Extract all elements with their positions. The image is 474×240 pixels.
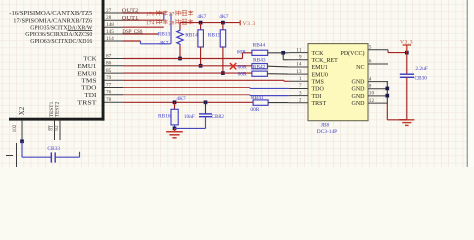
wire RB41 to pin 2 bbox=[268, 102, 289, 104]
junction GND pin 8 bbox=[385, 87, 389, 91]
GND bus vertical bbox=[386, 81, 388, 103]
power port V3.3 (rail) bar bbox=[239, 20, 241, 25]
junction on rail at RB15 bbox=[221, 21, 225, 25]
svg-text:RB13: RB13 bbox=[158, 32, 171, 38]
svg-text:10nF: 10nF bbox=[184, 114, 195, 120]
JB8 pin 10 stub bbox=[368, 95, 388, 97]
svg-text:PD(VCC): PD(VCC) bbox=[340, 50, 364, 57]
wire RB42 to pin 13 bbox=[267, 73, 288, 75]
JB8 pin 11 stub bbox=[289, 52, 308, 54]
svg-text:78: 78 bbox=[106, 97, 112, 103]
svg-text:3: 3 bbox=[299, 90, 302, 96]
svg-text:85: 85 bbox=[106, 68, 112, 74]
JB8 pin 12 stub bbox=[368, 102, 388, 104]
svg-text:CB82: CB82 bbox=[211, 114, 224, 120]
svg-text:4K7: 4K7 bbox=[197, 14, 207, 20]
svg-text:TDI: TDI bbox=[84, 93, 96, 99]
svg-text:V3.3: V3.3 bbox=[243, 21, 256, 27]
sheet border (right edge of schematic sheet) bbox=[468, 0, 474, 167]
svg-text:GPIO63/SCITXDC/XD16: GPIO63/SCITXDC/XD16 bbox=[30, 39, 92, 45]
svg-text:OUT2: OUT2 bbox=[122, 8, 139, 14]
svg-text:2.2uF: 2.2uF bbox=[415, 66, 427, 72]
svg-text:00R: 00R bbox=[238, 72, 247, 78]
svg-text:00R: 00R bbox=[237, 49, 246, 55]
stub tick bbox=[6, 155, 13, 157]
connector JB8 body bbox=[308, 44, 368, 121]
wire net TDO bbox=[123, 87, 250, 89]
pin 145 stub bbox=[105, 33, 124, 35]
junction RB13/TCK bbox=[178, 57, 182, 61]
svg-text:102: 102 bbox=[12, 124, 18, 132]
svg-text:12: 12 bbox=[369, 98, 375, 104]
wire jog at x=140.5 bbox=[140, 41, 142, 44]
svg-text:RB15: RB15 bbox=[208, 33, 221, 39]
svg-text:4K7: 4K7 bbox=[219, 14, 229, 20]
svg-text:4: 4 bbox=[369, 76, 372, 82]
wire net OUT1 (pin 28) bbox=[123, 19, 164, 21]
wire net TDI bbox=[123, 94, 250, 96]
wire net TCK bbox=[123, 58, 243, 60]
wire pin 148 bbox=[123, 26, 164, 28]
svg-text:13: 13 bbox=[296, 69, 302, 75]
svg-text:2: 2 bbox=[299, 97, 302, 103]
stub line (cut component) bbox=[16, 143, 18, 167]
svg-text:TCK: TCK bbox=[83, 57, 97, 63]
junction on rail at RB14 bbox=[199, 21, 203, 25]
capacitor CB30 2.2uF bbox=[406, 53, 408, 74]
junction RB15/EMU0 bbox=[221, 71, 225, 75]
svg-text:82: 82 bbox=[54, 125, 60, 131]
wire GND bus to ground bbox=[386, 103, 388, 120]
svg-text:GND: GND bbox=[352, 101, 366, 107]
svg-text:EMU1: EMU1 bbox=[312, 65, 328, 71]
power port V3.3 (right) bbox=[406, 45, 408, 52]
wire net TMS bbox=[123, 79, 284, 81]
wire net OUT2 (pin 27) bbox=[123, 12, 164, 14]
svg-text:77: 77 bbox=[106, 82, 112, 88]
svg-text:6: 6 bbox=[369, 59, 372, 65]
svg-text:RB42: RB42 bbox=[253, 65, 266, 71]
JB8 pin 7 stub bbox=[289, 87, 308, 89]
svg-text:EMU1: EMU1 bbox=[77, 64, 96, 70]
JB8 pin 2 stub bbox=[289, 102, 308, 104]
svg-text:TDI: TDI bbox=[312, 94, 322, 100]
resistor RB15 4K7 (box) bbox=[222, 23, 224, 30]
svg-text:114: 114 bbox=[106, 36, 114, 42]
resistor RB44 00R bbox=[252, 50, 268, 55]
wire pin 102 down bbox=[21, 141, 23, 157]
svg-text:TRST: TRST bbox=[312, 101, 327, 107]
pin 27 stub bbox=[105, 12, 124, 14]
svg-text:GND: GND bbox=[352, 87, 366, 93]
wire horizontal y=43.8 bbox=[141, 43, 172, 45]
wire net DSP_CS0 (pin 145) bbox=[123, 33, 158, 35]
svg-text:28: 28 bbox=[106, 15, 112, 21]
pin 87 stub bbox=[105, 58, 124, 60]
pin 114 stub bbox=[105, 40, 124, 42]
svg-text:EMU0: EMU0 bbox=[312, 72, 328, 78]
svg-text:00R: 00R bbox=[238, 65, 247, 71]
svg-text:4K7: 4K7 bbox=[176, 96, 186, 102]
svg-text:TRST: TRST bbox=[77, 101, 96, 107]
svg-text:14: 14 bbox=[296, 62, 302, 68]
svg-text:RB16: RB16 bbox=[158, 113, 171, 119]
JB8 pin 8 stub bbox=[368, 88, 388, 90]
junction V3.3/pin5 bbox=[405, 51, 409, 55]
svg-text:EMU0: EMU0 bbox=[77, 71, 96, 77]
svg-text:87: 87 bbox=[106, 53, 112, 59]
svg-text:TMS: TMS bbox=[312, 79, 324, 85]
wire net EMU0 bbox=[123, 72, 252, 74]
capacitor CB33 bbox=[22, 156, 51, 158]
svg-text:GPIO36/SCIRXDA/XZCS0: GPIO36/SCIRXDA/XZCS0 bbox=[25, 32, 92, 38]
svg-text:NC: NC bbox=[356, 65, 364, 71]
JB8 pin 5 stub bbox=[368, 49, 388, 51]
JB8 pin 13 stub bbox=[289, 73, 308, 75]
resistor RB42 00R bbox=[252, 71, 268, 76]
svg-text:TDO: TDO bbox=[312, 87, 325, 93]
svg-text:1: 1 bbox=[299, 76, 302, 82]
resistor RB41 00R bbox=[253, 100, 268, 105]
svg-text:145: 145 bbox=[106, 29, 114, 35]
svg-text:TMS: TMS bbox=[81, 79, 96, 85]
svg-text:76: 76 bbox=[106, 90, 112, 96]
svg-text:86: 86 bbox=[106, 61, 112, 67]
IC U-X2 bottom edge bbox=[9, 118, 105, 121]
resistor RB14 4K7 (box) bbox=[200, 23, 202, 30]
IC U-X2 right edge bbox=[102, 0, 105, 121]
svg-text:10: 10 bbox=[369, 91, 375, 97]
svg-text:9: 9 bbox=[299, 54, 302, 60]
resistor RB13 4K7 (zigzag) bbox=[179, 23, 181, 29]
wire CB82 to RB16 bottom bbox=[175, 127, 206, 129]
JB8 pin 3 stub bbox=[289, 95, 308, 97]
svg-text:RB14: RB14 bbox=[185, 33, 198, 39]
ground symbol (TRST RC) bbox=[174, 128, 176, 131]
pin 79 stub bbox=[105, 79, 124, 81]
pin 81 stub bbox=[54, 121, 56, 140]
svg-text:V3.3: V3.3 bbox=[400, 40, 413, 46]
svg-text:GND: GND bbox=[352, 94, 366, 100]
svg-text:176: 176 bbox=[146, 12, 155, 18]
pin 86 stub bbox=[105, 65, 124, 67]
pin 77 stub bbox=[105, 87, 124, 89]
svg-text:00R: 00R bbox=[250, 107, 259, 113]
svg-text:CB33: CB33 bbox=[47, 146, 60, 152]
svg-text:TCK_RET: TCK_RET bbox=[312, 58, 339, 64]
svg-text:4K7: 4K7 bbox=[159, 41, 169, 47]
wire pin5 to V3.3 bbox=[387, 50, 389, 53]
wire V3.3 rail bbox=[180, 22, 240, 24]
wire net TRST bbox=[123, 101, 253, 103]
svg-text:TEST2: TEST2 bbox=[54, 101, 60, 117]
svg-text:TDO: TDO bbox=[81, 86, 97, 92]
svg-text:DSP_CS0: DSP_CS0 bbox=[122, 29, 142, 35]
wire vertical x=171 bbox=[170, 13, 172, 44]
svg-text:7: 7 bbox=[299, 83, 302, 89]
svg-text:JB8: JB8 bbox=[321, 123, 330, 129]
capacitor CB82 10nF bbox=[205, 102, 207, 113]
pin 76 stub bbox=[105, 94, 124, 96]
svg-text:RB43: RB43 bbox=[253, 58, 266, 64]
wire net EMU1 bbox=[123, 65, 252, 67]
pin 85 stub bbox=[105, 72, 124, 74]
junction RB14/EMU1 bbox=[199, 64, 203, 68]
svg-text:8: 8 bbox=[369, 83, 372, 89]
junction RB16/CB82 bottom bbox=[173, 127, 177, 131]
pin 82 stub bbox=[59, 121, 61, 140]
svg-text:CB30: CB30 bbox=[414, 76, 427, 82]
svg-text:174: 174 bbox=[146, 20, 155, 26]
svg-text:RB44: RB44 bbox=[253, 42, 266, 48]
svg-text:-16/SPISIMOA/CANTXB/TZ5: -16/SPISIMOA/CANTXB/TZ5 bbox=[9, 11, 92, 17]
JB8 pin 4 stub bbox=[368, 81, 388, 83]
svg-text:28: 28 bbox=[169, 20, 175, 26]
pin 78 stub bbox=[105, 101, 124, 103]
no-ERC X mark on EMU1 bbox=[230, 63, 236, 69]
svg-text:27: 27 bbox=[169, 12, 175, 18]
resistor RB16 4K7 (pull-down) bbox=[174, 102, 176, 109]
wire vertical joining rows 27/28 bbox=[163, 13, 165, 20]
pin 28 stub bbox=[105, 19, 124, 21]
svg-text:27: 27 bbox=[106, 8, 112, 14]
wire RB43 to pin 14 bbox=[267, 65, 288, 68]
wire RB44 to pins 11/9 bbox=[268, 52, 289, 54]
junction GND pin 10 bbox=[385, 94, 389, 98]
pin 148 stub bbox=[105, 26, 124, 28]
wire pin 114 bbox=[123, 40, 141, 42]
active-low underline XR/W bbox=[68, 29, 93, 31]
svg-text:X2: X2 bbox=[19, 106, 26, 115]
svg-text:GND: GND bbox=[352, 79, 366, 85]
svg-text:11: 11 bbox=[296, 47, 301, 53]
svg-text:17/SPISOMIA/CANRXB/TZ6: 17/SPISOMIA/CANRXB/TZ6 bbox=[13, 18, 92, 24]
junction TRST/CB82 bbox=[204, 100, 208, 104]
JB8 pin 14 stub bbox=[289, 66, 308, 68]
svg-text:5: 5 bbox=[369, 45, 372, 51]
pin 102 stub bbox=[21, 121, 23, 142]
ground symbol (CB30) bbox=[399, 119, 414, 121]
svg-text:RB41: RB41 bbox=[251, 95, 264, 101]
JB8 pin 1 stub bbox=[289, 80, 308, 82]
svg-text:TCK: TCK bbox=[312, 51, 325, 57]
resistor RB43 00R bbox=[252, 64, 268, 69]
JB8 pin 6 stub bbox=[368, 63, 388, 65]
svg-text:DC3-14P: DC3-14P bbox=[317, 129, 337, 135]
junction pin 102 bbox=[20, 139, 24, 143]
svg-text:148: 148 bbox=[106, 22, 114, 28]
junction TRST/RB16 bbox=[173, 100, 177, 104]
svg-text:79: 79 bbox=[106, 75, 112, 81]
JB8 pin 9 stub bbox=[289, 59, 308, 61]
